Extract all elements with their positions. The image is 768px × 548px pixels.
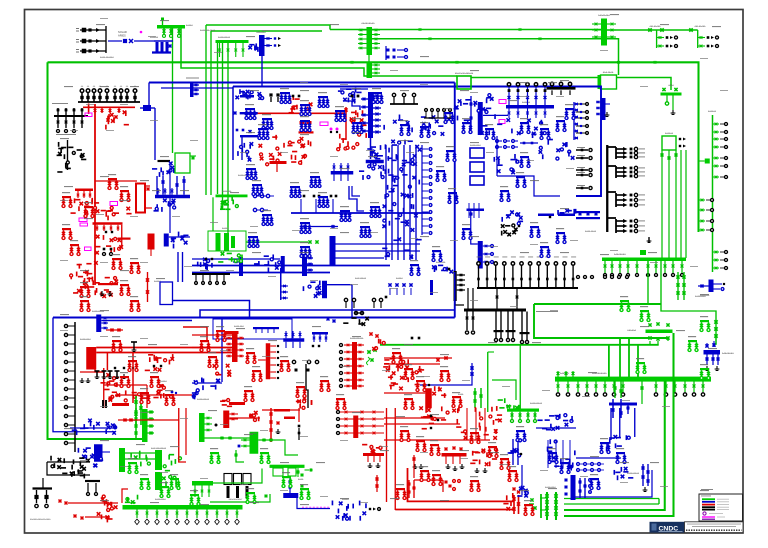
green loop left side: [48, 62, 146, 439]
red top cluster t9: [77, 289, 81, 293]
blue bus kenko alto: [259, 35, 265, 56]
blue cluster bottom t6: [281, 256, 285, 272]
extra red motifs t9: [80, 286, 89, 288]
svg-text:AAA AAAAA: AAA AAAAA: [355, 277, 367, 280]
svg-text:AAAAAAAAA: AAAAAAAAA: [361, 22, 375, 25]
red cluster seguencoma: [304, 154, 307, 157]
green path from lipari: [258, 440, 298, 455]
blue bus trinidad: [704, 350, 721, 355]
black cluster achica: [67, 140, 69, 170]
red vertical quino: [147, 272, 149, 302]
blue vbus t3: [478, 102, 483, 135]
green feeder column x712: [712, 115, 714, 272]
blue cluster sucre solar: [343, 513, 345, 518]
green connector: [213, 469, 262, 484]
extra blue motifs cumbre zone: [462, 122, 471, 124]
green square carrasco: [640, 250, 646, 255]
red cluster karachi w: [513, 495, 515, 514]
red bus 2 t10: [266, 343, 271, 379]
green top right cluster 1: [656, 30, 658, 48]
blue cluster below guaracachi: [609, 403, 637, 406]
green bus tola takera: [661, 93, 682, 96]
blue corner x149: [148, 83, 150, 106]
karachipampa cluster: [642, 464, 644, 486]
red cluster angola: [162, 386, 165, 389]
svg-text:AAAAAAAAA: AAAAAAAAA: [530, 402, 543, 405]
green line y25 nested: [206, 25, 330, 30]
legend magenta bar: [702, 516, 715, 517]
extra blue motifs t15/t16: [516, 430, 525, 432]
blue bus right edge t7: [558, 214, 575, 217]
green line y29.5: [330, 29, 601, 31]
svg-text:AAAAAAAA: AAAAAAAA: [598, 14, 610, 17]
svg-text:AAAAAAAAA: AAAAAAAAA: [218, 36, 231, 39]
black trunk feeder column: [74, 322, 76, 452]
svg-text:AAAAAAA: AAAAAAA: [256, 31, 266, 34]
blue line y272: [192, 272, 330, 274]
black feeder row small t3: [425, 109, 428, 112]
green bottom lines to cluster: [564, 498, 659, 500]
black comb bus y288: [477, 287, 578, 289]
green line y30 right: [607, 29, 698, 31]
red cluster rows t15: [431, 416, 433, 421]
green line carrasco to yapacani: [661, 261, 716, 325]
black feeder bus: [78, 101, 140, 103]
green vertical x642: [641, 381, 643, 404]
green bus carrasco: [602, 258, 686, 262]
blue vertical pair to box: [177, 252, 179, 282]
red bus achumani: [86, 347, 96, 370]
blue line y88: [161, 87, 233, 89]
black pair syms: [103, 248, 106, 251]
red cluster 2 right t14: [363, 453, 384, 456]
blue box corner t11: [454, 272, 456, 318]
black drops trunk to bus2: [455, 301, 464, 305]
red long line y113: [250, 112, 345, 114]
blue bus achocalla: [96, 315, 101, 333]
blue bus center t6: [331, 171, 354, 175]
extra green motifs right: [620, 300, 629, 302]
svg-text:AAAAAAAAAA: AAAAAAAAAA: [350, 337, 364, 340]
red line y330: [106, 329, 123, 331]
green box path uyuni: [492, 380, 516, 400]
green bottom loop outer: [564, 333, 674, 516]
green bus santivanez lower: [367, 62, 373, 78]
red verticals t15: [386, 408, 388, 502]
blue verticals t15: [512, 439, 514, 465]
magenta box t2: [320, 122, 328, 126]
blue cluster top right t2: [352, 95, 354, 100]
title bar cndc: [650, 522, 685, 533]
blue path solar: [297, 498, 330, 509]
blue vertical munaypata: [241, 136, 243, 160]
red lines into bus: [192, 334, 232, 336]
green feeder column x698 rows: [699, 199, 706, 201]
green vbus las carreras 1: [119, 448, 125, 472]
black cluster left small: [54, 115, 88, 117]
black sym t9: [131, 341, 137, 343]
magenta box 2: [110, 202, 118, 206]
black bus t13: [33, 487, 53, 489]
magenta boxes 3: [79, 218, 87, 222]
svg-text:AAAAAAAA: AAAAAAAA: [155, 498, 166, 501]
blue bus right t6: [366, 160, 384, 164]
green square: [705, 159, 710, 164]
black circles san borja: [344, 298, 347, 301]
extra red motifs t11: [392, 352, 401, 354]
red cluster mid t9: [106, 373, 110, 377]
green cluster bottom palos blancos: [540, 494, 542, 518]
uyuni green cluster: [474, 388, 476, 408]
blue squares pampahasi: [387, 49, 390, 52]
blue bus t7 mid: [467, 209, 485, 212]
blue bus t14 south: [283, 493, 298, 498]
green vertical x211: [210, 31, 212, 195]
red big bus palca: [136, 184, 145, 213]
blue seg y226: [301, 226, 338, 228]
svg-text:AAAAAA: AAAAAA: [665, 132, 674, 135]
legend circle row: [703, 512, 706, 515]
black network t13: [47, 461, 90, 463]
red x right t10: [369, 332, 372, 335]
svg-text:AAAAA: AAAAA: [186, 24, 193, 27]
blue cluster viloco: [70, 427, 115, 429]
blue bits t11: [470, 366, 473, 369]
blue cluster bottom t2: [240, 135, 258, 137]
magenta boxes t3: [499, 100, 506, 104]
blue aranjuez cluster: [470, 148, 484, 158]
cota cota blue box: [213, 319, 292, 339]
red long line y352: [96, 352, 232, 354]
ground near carrasco: [648, 237, 650, 242]
red bottom cluster t5: [85, 270, 89, 274]
svg-text:AAAA AAA: AAAA AAA: [234, 325, 244, 328]
extra blue motifs t7: [446, 150, 455, 152]
black circles row t12: [577, 276, 580, 279]
green verticals corani to carrasco: [661, 150, 663, 258]
blue vbus x302: [302, 254, 307, 276]
red horizontals t15: [384, 417, 445, 419]
blue z path t7: [497, 176, 560, 196]
extra blue motifs center t6: [246, 168, 256, 170]
svg-text:AAAAAAAA: AAAAAAAA: [80, 338, 91, 341]
black trunk sipe sipe: [606, 145, 608, 232]
green box corani: [662, 136, 676, 150]
black pairs t2b: [351, 95, 354, 98]
junction marks on green lines: [351, 61, 354, 64]
green vbus lipari: [250, 432, 259, 454]
extra red motifs t15: [400, 430, 409, 432]
svg-text:AAAAAAAAA: AAAAAAAAA: [627, 472, 640, 475]
green bus santivanez upper: [367, 27, 373, 55]
green vertical x228: [227, 43, 229, 233]
red line y347 second: [96, 347, 232, 349]
red lines t11: [384, 357, 452, 359]
blue line y310: [200, 310, 455, 318]
blue line y82 long: [149, 82, 455, 84]
black bus 2 t13: [85, 480, 100, 482]
green horizontal y242: [246, 241, 308, 243]
green vbus las carreras 2: [155, 450, 162, 470]
svg-text:AAAAA: AAAAA: [160, 380, 167, 383]
red horizontal y420: [118, 419, 179, 421]
blue line y265 long: [192, 265, 390, 267]
green verticals belgica down: [649, 341, 651, 345]
svg-text:AAAAAAAA: AAAAAAAA: [722, 352, 734, 355]
green second loop y68: [181, 27, 457, 76]
green bus chuquiaguillo: [216, 40, 249, 43]
svg-text:AAAAA: AAAAA: [222, 227, 229, 230]
green top right cluster 2: [697, 30, 699, 48]
green box kenko: [175, 153, 190, 173]
black groups below bus2: [466, 312, 468, 331]
red vertical x346: [345, 107, 347, 140]
green 115kV line top loop: [48, 62, 699, 232]
blue bus huajchilla: [602, 98, 606, 120]
svg-text:AAA AAAAA: AAA AAAAA: [649, 25, 661, 28]
red branch y107: [83, 106, 135, 108]
green vertical x222: [222, 43, 224, 210]
blue vertical x454 long: [454, 83, 456, 318]
blue vertical x522: [521, 465, 523, 495]
green cluster atocha: [142, 409, 148, 442]
red x stack right t14: [376, 475, 378, 492]
blue bus t2 mid: [240, 112, 258, 114]
blue row t7: [506, 215, 510, 219]
green bottom loop inner: [564, 381, 665, 510]
blue rows t16: [577, 463, 580, 466]
black transformer boxes: [224, 474, 232, 485]
red drop bus: [121, 225, 123, 247]
blue x row in box: [388, 283, 391, 286]
svg-text:AAAAAAAA: AAAAAAAA: [470, 144, 481, 147]
green bus telamayu: [123, 505, 243, 510]
ground pair t15: [413, 464, 418, 468]
blue line to Khasani: [108, 40, 122, 42]
green X stack yapacani: [677, 272, 679, 300]
guaracachi feeders below: [557, 381, 559, 392]
svg-text:AAAAAAAA: AAAAAAAA: [614, 253, 626, 256]
blue left vertical x53: [53, 318, 115, 432]
blue box bolognia: [160, 282, 173, 305]
red box corner t10: [183, 327, 207, 341]
blue cluster right t15: [551, 460, 556, 462]
svg-text:AAAA AA AAAAAAAA: AAAA AA AAAAAAAA: [455, 72, 474, 75]
black rows left edge: [576, 103, 585, 105]
punutuma cluster: [408, 480, 410, 498]
blue vbus t7 bottom: [478, 241, 483, 269]
red right big cluster t14: [337, 411, 340, 414]
blue line y213 long: [291, 212, 430, 214]
magenta box 4: [85, 247, 92, 251]
blue bus viacha main: [155, 195, 190, 199]
blue row y383: [192, 382, 222, 384]
magenta box 1: [85, 113, 92, 117]
black bus chuquiaguillo t3: [547, 87, 576, 90]
green vertical x217: [217, 43, 219, 194]
green line y38.75: [372, 39, 619, 75]
blue khasana small cluster: [140, 107, 155, 109]
svg-text:AAAA: AAAA: [298, 478, 304, 481]
telamayu feeders: [136, 510, 138, 519]
red cluster bottom t10: [311, 400, 313, 405]
green box salla: [457, 76, 471, 89]
green box san jose: [598, 75, 601, 89]
green vbus villamontes: [199, 413, 205, 442]
green bus chus: [270, 465, 305, 468]
red trunk from feeders: [94, 104, 96, 285]
green bus tupiza left: [192, 481, 213, 486]
red line to palca bus: [95, 180, 137, 182]
blue vertical x170: [169, 163, 171, 195]
black cluster solar aries: [105, 26, 107, 53]
blue feeder col x574: [573, 102, 575, 140]
blue cluster t16 left: [579, 478, 581, 498]
blue line y320: [101, 320, 192, 322]
red row 1 t13: [59, 500, 62, 503]
green line y345 long: [380, 344, 659, 346]
blue cluster achachicala: [240, 95, 254, 98]
extra green motifs south: [128, 462, 137, 464]
red bus viacha ind: [75, 189, 93, 192]
red vertical x271: [270, 408, 272, 442]
red bus bottom t10: [229, 402, 245, 405]
red bottom cluster t9: [133, 395, 136, 398]
svg-text:ARIES: ARIES: [118, 33, 126, 37]
green bus belgica: [646, 330, 673, 334]
green bus top t15: [507, 409, 539, 412]
cordecruz cluster: [504, 398, 506, 403]
red row 2 t13: [74, 515, 77, 518]
green horizontal y438: [205, 437, 250, 439]
svg-text:AAAAA: AAAAA: [396, 277, 403, 280]
svg-text:AAAAAAA AAAA: AAAAAAA AAAA: [200, 29, 216, 32]
green vertical x520 cordecruz: [519, 345, 521, 400]
guaracachi feeders above: [557, 371, 559, 377]
extra blue motifs la paz box: [245, 108, 255, 110]
blue vertical x222: [221, 318, 223, 382]
green syms right t10: [367, 350, 370, 353]
red right edge mid: [375, 347, 378, 350]
green path y502: [210, 494, 270, 502]
red small syms: [124, 124, 129, 126]
black T pair row t9: [95, 370, 100, 372]
blue bus chojlla: [94, 444, 103, 462]
green vertical x206: [205, 25, 207, 195]
blue right vertical bus t2 (long): [368, 92, 373, 138]
black feeders t3 left: [392, 93, 395, 96]
red cluster mid t15: [489, 461, 491, 466]
green vbus 3: [155, 472, 162, 490]
red bus cota: [93, 222, 123, 225]
svg-text:AAAAAAAAAAA AAAAA: AAAAAAAAAAA AAAAA: [30, 518, 51, 521]
svg-text:AAA AAAAA: AAA AAAAA: [694, 25, 706, 28]
black feeder group row: [80, 89, 84, 93]
green cluster below guaracachi: [614, 381, 616, 398]
red mid syms: [108, 210, 113, 212]
blue thick vbus right: [571, 475, 576, 500]
green bus guaracachi: [555, 377, 711, 382]
black bus viacha: [158, 160, 171, 162]
green bus miguillas: [601, 19, 607, 46]
blue box la paz outline: [233, 87, 601, 197]
svg-text:AAAA AAAA: AAAA AAAA: [585, 230, 597, 233]
blue vbus x239: [239, 257, 243, 276]
svg-text:AAAA: AAAA: [668, 84, 674, 87]
green vertical x487: [487, 352, 489, 412]
svg-text:AAA AAAA: AAA AAAA: [603, 71, 614, 74]
black rows in blue box t8: [576, 149, 588, 151]
red bus y132: [299, 131, 314, 133]
red dense top t15: [479, 426, 481, 431]
blue scatter t3: [486, 107, 491, 109]
red bus t15: [442, 453, 467, 457]
black bus top t10: [192, 273, 230, 275]
trunk rows right: [457, 274, 465, 276]
scatter label smudges: [96, 24, 105, 25]
red bus piece y403: [112, 403, 129, 406]
green line y304 vertical x534: [534, 304, 668, 338]
legend purple bar: [702, 519, 715, 520]
blue bus taperas: [709, 280, 714, 293]
blue rows top t7 right: [496, 140, 499, 143]
blue drop from bus: [261, 56, 263, 87]
blue bus yaracruz: [538, 214, 554, 217]
blue step shapes t6: [349, 186, 364, 211]
red line y395: [115, 394, 192, 396]
black dots t7: [507, 233, 511, 237]
svg-text:AAAA: AAAA: [458, 393, 464, 396]
red path down t9: [95, 370, 104, 373]
blue long y497: [573, 470, 652, 497]
red vertical x133: [132, 353, 134, 404]
svg-text:AAAAAAAAA: AAAAAAAAA: [197, 398, 210, 401]
red bus barrientos: [352, 342, 357, 390]
black center bottom t10: [292, 360, 295, 363]
blue circle rows t6: [253, 194, 256, 197]
green cluster palca: [216, 233, 221, 251]
blue x pair t10: [327, 318, 330, 321]
red vbus t14: [223, 411, 229, 429]
red vertical right t13: [179, 408, 186, 462]
red bus left t10: [232, 332, 238, 362]
green second loop continue: [471, 77, 598, 79]
red cluster senorkha: [153, 367, 157, 371]
svg-text:AAA AAAAAAAA: AAA AAAAAAAA: [151, 447, 167, 450]
black bus2 y309: [464, 309, 526, 312]
blue top right t15: [536, 427, 576, 429]
blue vertical x280 up: [280, 268, 282, 300]
svg-text:AAAAAA: AAAAAA: [627, 329, 636, 332]
red vertical x107: [106, 353, 108, 371]
blue mesh left t7: [385, 255, 390, 257]
red hatched bus mazocruz: [148, 234, 155, 250]
blue cluster right t10: [312, 332, 328, 335]
title text box: [685, 522, 744, 533]
red bus t11: [425, 388, 432, 408]
green verticals to guaracachi: [608, 345, 610, 377]
blue vbus huaripampa: [190, 82, 194, 97]
red t2 clusters: [292, 95, 294, 100]
green bus chuspipata top: [157, 25, 185, 29]
green verticals t9 bottom: [135, 396, 137, 425]
svg-text:SOLAR: SOLAR: [118, 30, 127, 34]
green line y304: [534, 303, 661, 305]
green bus mallasa: [216, 195, 248, 198]
blue long line y317: [53, 317, 455, 319]
svg-text:AAAAAA: AAAAAA: [522, 101, 531, 104]
blue bus t10 mid: [283, 338, 304, 342]
